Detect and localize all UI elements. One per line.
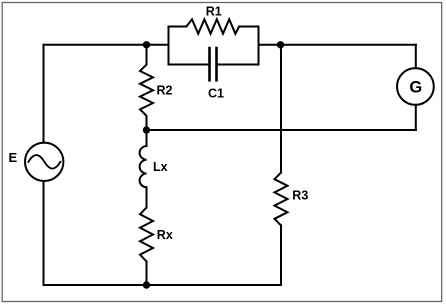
svg-text:R3: R3 [292,188,308,202]
capacitor C1 plate right [215,48,218,80]
svg-text:G: G [409,79,422,97]
node B junction dot [277,41,284,48]
svg-text:Lx: Lx [153,160,168,174]
wire: left vertical below source E [43,181,45,285]
block bottom rail right segment [217,64,259,66]
svg-text:E: E [9,150,18,165]
wire: Rx to bottom node D [146,262,148,286]
block bottom rail left segment [169,64,210,66]
wire: node B down to resistor R3 [280,45,282,173]
wire: below meter G down to return wire [415,105,417,130]
wire: galvanometer return horizontal [147,129,416,131]
source E [25,143,63,181]
node D junction dot [143,281,150,288]
block left bar [168,27,170,65]
node A junction dot [143,41,150,48]
wire: R3 to bottom wire [280,225,282,285]
wire: top-left horizontal (node TL to block left bar) [44,44,169,46]
svg-text:C1: C1 [208,87,224,101]
block right bar [258,27,260,65]
node C junction dot [143,126,150,133]
wire: node C down to inductor Lx [146,130,148,146]
resistor R3 (vertical zigzag) [275,173,288,226]
resistor R1 (top rail of parallel block) [169,19,259,33]
wire: left vertical above source E [43,45,45,143]
capacitor C1 plate left [208,48,211,80]
svg-text:R1: R1 [206,4,222,18]
wire: bottom horizontal [44,284,282,286]
wire: top-right vertical down to meter G [415,45,417,68]
resistor Rx (vertical zigzag) [140,208,153,262]
svg-text:R2: R2 [157,84,173,98]
resistor R2 (vertical zigzag) [140,45,153,130]
svg-text:Rx: Rx [157,228,173,242]
inductor Lx (3 left-bulging arcs) [140,146,147,187]
sine wave inside E [28,155,60,169]
wire: Lx to Rx [146,187,148,207]
wire: block right bar to top-right corner [259,44,416,46]
meter G circle [397,68,434,105]
